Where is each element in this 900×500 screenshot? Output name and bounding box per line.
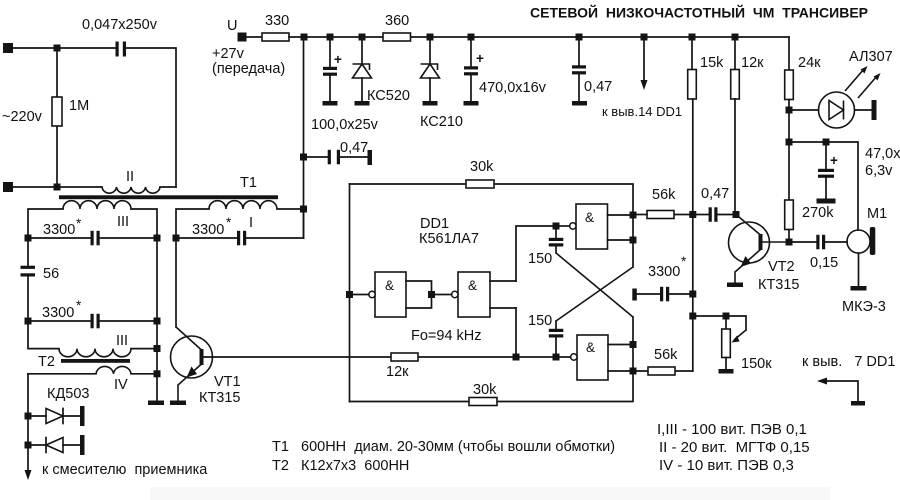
svg-text:МКЭ-3: МКЭ-3 xyxy=(842,299,886,315)
resistor 24к xyxy=(785,55,821,100)
resistor R 1M xyxy=(52,51,89,187)
node gate1 input tie xyxy=(428,291,435,298)
op gate DD1.3 upper right xyxy=(556,204,633,267)
node gate4 in2 xyxy=(630,368,637,375)
svg-text:~220v: ~220v xyxy=(2,109,43,125)
svg-text:КС210: КС210 xyxy=(420,114,463,130)
svg-text:к смесителю приемника: к смесителю приемника xyxy=(42,462,208,478)
wire bottom mains xyxy=(13,186,102,188)
wire right tank column xyxy=(156,238,158,401)
svg-text:0,15: 0,15 xyxy=(810,255,838,271)
op gate DD1.4 lower right xyxy=(516,317,633,380)
wire VT1 collector up xyxy=(175,238,177,327)
svg-text:56k: 56k xyxy=(654,347,678,363)
svg-text:U: U xyxy=(227,18,237,34)
svg-text:12к: 12к xyxy=(741,55,764,71)
node J1 xyxy=(54,45,61,52)
diode VD2 КД503 xyxy=(28,438,80,453)
svg-text:КТ315: КТ315 xyxy=(199,390,241,406)
ground bar right tank column xyxy=(148,401,164,406)
capacitor 150 lower xyxy=(528,313,563,357)
terminal X2 (~220v bottom) xyxy=(3,182,13,192)
capacitor 0,47 tap xyxy=(304,140,369,164)
resistor 360 xyxy=(383,13,411,41)
capacitor 0,15 xyxy=(789,235,847,271)
wire x693 column xyxy=(692,215,694,372)
svg-text:СЕТЕВОЙ НИЗКОЧАСТОТНЫЙ ЧМ Т: СЕТЕВОЙ НИЗКОЧАСТОТНЫЙ ЧМ ТРАНСИВЕР xyxy=(530,4,868,21)
wire gate2 in2 down xyxy=(515,308,517,357)
potentiometer 150к xyxy=(693,313,772,373)
svg-text:30k: 30k xyxy=(473,382,497,398)
node tank2 top right xyxy=(300,206,307,213)
node diode row2 xyxy=(25,442,32,449)
svg-text:270k: 270k xyxy=(802,205,834,221)
wire rail main xyxy=(304,36,789,38)
node left tank row2 left xyxy=(25,318,32,325)
node 47,0 row left xyxy=(786,139,793,146)
ground bar tap7 xyxy=(851,401,865,406)
terminal bar diode row1 xyxy=(80,406,85,426)
zener VD КС520 xyxy=(353,41,410,104)
svg-text:M1: M1 xyxy=(867,206,887,222)
terminal U xyxy=(238,33,247,42)
svg-text:12к: 12к xyxy=(386,364,409,380)
tap к выв. 7 DD1 xyxy=(802,354,895,401)
winding I of T1 xyxy=(176,201,304,238)
op gate DD1.1 xyxy=(353,272,432,317)
ground bar КС210 xyxy=(423,101,438,106)
svg-text:360: 360 xyxy=(385,13,409,29)
svg-text:к выв.14 DD1: к выв.14 DD1 xyxy=(602,104,682,119)
wire top mains xyxy=(13,47,116,49)
svg-text:КД503: КД503 xyxy=(47,386,89,402)
node 150k tap xyxy=(689,313,696,320)
svg-text:&: & xyxy=(385,278,394,293)
node 3300 right xyxy=(689,291,696,298)
node gate4 output junction xyxy=(553,354,560,361)
wire rail corner to 24k xyxy=(788,37,790,70)
terminal bar LED xyxy=(872,100,877,120)
node feed 0,47 tap xyxy=(300,154,307,161)
ground bar 0,47 rail xyxy=(572,101,587,106)
resistor 56k upper xyxy=(637,187,690,219)
node tank2 left xyxy=(173,235,180,242)
ground bar VT1 emitter xyxy=(170,401,186,406)
capacitor 0,047x250v xyxy=(82,17,158,57)
svg-text:+27v: +27v xyxy=(212,46,245,62)
node VT2 base xyxy=(786,239,793,246)
svg-text:0,47: 0,47 xyxy=(340,140,368,156)
svg-text:&: & xyxy=(586,340,595,355)
svg-text:*: * xyxy=(681,254,687,269)
svg-text:3300: 3300 xyxy=(648,264,680,280)
wire 24k down xyxy=(788,100,790,201)
svg-text:470,0x16v: 470,0x16v xyxy=(479,80,547,96)
svg-text:T2 К12х7х3 600НН: T2 К12х7х3 600НН xyxy=(272,458,409,474)
capacitor 0,47 tx xyxy=(697,186,733,222)
transformer T2 core xyxy=(38,354,130,370)
svg-text:3300: 3300 xyxy=(192,222,224,238)
ground bar 470,0 xyxy=(464,101,479,106)
svg-text:VT1: VT1 xyxy=(214,374,241,390)
svg-text:DD1: DD1 xyxy=(420,216,449,232)
svg-text:К561ЛА7: К561ЛА7 xyxy=(419,231,479,247)
node rail 12k xyxy=(732,34,739,41)
svg-text:T2: T2 xyxy=(38,354,55,370)
svg-text:100,0x25v: 100,0x25v xyxy=(311,117,379,133)
capacitor 3300* tx xyxy=(632,254,689,301)
node gate4 feedback tie xyxy=(513,354,520,361)
arrow to pin 14 DD1 xyxy=(602,41,682,119)
node rail КС520 xyxy=(359,34,366,41)
node T2 secondary right xyxy=(154,370,161,377)
node rail x304 xyxy=(301,34,308,41)
svg-text:*: * xyxy=(76,216,82,231)
ground bar VT2 emitter xyxy=(727,283,743,288)
svg-text:II - 20 вит. МГТФ 0,15: II - 20 вит. МГТФ 0,15 xyxy=(659,439,810,456)
svg-text:15k: 15k xyxy=(700,55,724,71)
svg-text:56k: 56k xyxy=(652,187,676,203)
svg-text:150к: 150к xyxy=(741,356,772,372)
svg-text:(передача): (передача) xyxy=(212,61,285,77)
svg-text:II: II xyxy=(126,169,134,185)
ground bar 100,0 xyxy=(323,101,338,106)
wire left tank column to T2 xyxy=(28,321,59,349)
winding II of T1 xyxy=(102,169,176,193)
node gate4 in1 xyxy=(630,341,637,348)
capacitor 3300* tank2 xyxy=(176,209,304,245)
svg-text:0,047x250v: 0,047x250v xyxy=(82,17,158,33)
resistor 12к base VT1 xyxy=(204,353,517,380)
svg-text:30k: 30k xyxy=(470,159,494,175)
wire 30k bottom loop xyxy=(350,371,634,402)
wire cross diagonal 2 xyxy=(556,267,633,321)
resistor 56k lower xyxy=(637,347,693,375)
svg-text:к выв. 7 DD1: к выв. 7 DD1 xyxy=(802,354,895,370)
svg-text:0,47: 0,47 xyxy=(701,186,729,202)
svg-text:3300: 3300 xyxy=(43,222,75,238)
svg-text:+: + xyxy=(830,153,838,168)
resistor 15k xyxy=(688,41,724,99)
svg-text:*: * xyxy=(76,298,82,313)
node x693 upper xyxy=(689,211,696,218)
resistor 270k xyxy=(785,200,834,230)
node 47,0 cap top xyxy=(823,139,830,146)
op gate DD1.2 xyxy=(435,272,516,317)
node gate1 output xyxy=(346,291,353,298)
svg-text:56: 56 xyxy=(43,266,59,282)
svg-text:VT2: VT2 xyxy=(768,259,795,275)
resistor 12к xyxy=(731,41,764,99)
capacitor 56 xyxy=(21,238,60,321)
ground bar M1 xyxy=(851,286,867,291)
terminal bar 0,47 tap xyxy=(368,150,373,165)
svg-text:1M: 1M xyxy=(69,98,89,114)
ground bar 150k xyxy=(719,369,734,374)
node left tank row1 left xyxy=(25,235,32,242)
ground bar 47,0 xyxy=(817,199,836,204)
wire 12k down xyxy=(734,99,736,215)
svg-text:T1 600НН диам. 20-30мм (что: T1 600НН диам. 20-30мм (чтобы вошли обмо… xyxy=(272,439,615,455)
diode VD1 КД503 xyxy=(28,409,80,424)
wire feed column x303.5 xyxy=(303,37,305,238)
svg-text:24к: 24к xyxy=(798,55,821,71)
svg-text:IV - 10 вит. ПЭВ 0,3: IV - 10 вит. ПЭВ 0,3 xyxy=(659,457,794,474)
arrow to mixer xyxy=(25,462,209,480)
wire 15k down xyxy=(692,99,694,215)
microphone M1 МКЭ-3 xyxy=(842,206,887,315)
node gate3 in1 xyxy=(630,212,637,219)
svg-text:&: & xyxy=(468,278,477,293)
node rail 0,47 xyxy=(576,34,583,41)
svg-text:III: III xyxy=(116,333,128,349)
svg-text:47,0x: 47,0x xyxy=(865,146,900,162)
svg-text:&: & xyxy=(585,210,594,225)
capacitor 0,47 rail xyxy=(572,41,612,101)
transistor VT1 КТ315 xyxy=(171,327,241,406)
wire filtered node row xyxy=(789,142,858,230)
svg-text:*: * xyxy=(226,215,232,230)
capacitor 470,0x16v xyxy=(464,41,547,101)
capacitor 47,0x 6,3v xyxy=(818,142,900,199)
terminal X1 (~220v top) xyxy=(3,43,13,53)
wire U to R330 xyxy=(246,36,262,38)
svg-text:150: 150 xyxy=(528,251,552,267)
node rail pin14 xyxy=(641,34,648,41)
svg-text:III: III xyxy=(117,214,129,230)
svg-text:330: 330 xyxy=(265,13,289,29)
node rail 100,0 xyxy=(327,34,334,41)
resistor 30k top xyxy=(466,159,494,188)
winding III of T2 xyxy=(59,333,157,357)
svg-text:КТ315: КТ315 xyxy=(758,277,800,293)
node LED tap xyxy=(786,107,793,114)
wire 30k top loop xyxy=(350,184,634,215)
svg-text:I: I xyxy=(249,215,253,231)
wire gate2 in1 up xyxy=(516,226,556,281)
svg-text:3300: 3300 xyxy=(42,305,74,321)
svg-text:0,47: 0,47 xyxy=(584,79,612,95)
wire cap to corner xyxy=(126,48,176,187)
svg-text:+: + xyxy=(476,51,484,66)
zener VD КС210 xyxy=(420,41,463,130)
svg-text:IV: IV xyxy=(114,377,128,393)
capacitor 3300* upper left tank xyxy=(28,216,157,245)
svg-text:I,III - 100 вит. ПЭВ 0,1: I,III - 100 вит. ПЭВ 0,1 xyxy=(657,421,807,438)
wire DD1 left column xyxy=(349,184,351,402)
node left tank row2 right xyxy=(154,318,161,325)
capacitor 150 upper xyxy=(528,226,563,267)
resistor 330 xyxy=(262,13,289,41)
node gate3 in2 xyxy=(630,237,637,244)
capacitor 100,0x25v xyxy=(311,37,379,133)
node VT2 collector xyxy=(733,211,740,218)
transformer T1 core xyxy=(59,175,278,199)
svg-text:T1: T1 xyxy=(240,175,257,191)
ground bar КС520 xyxy=(355,101,370,106)
capacitor 3300* lower left tank xyxy=(28,298,157,328)
svg-text:Fo=94 kHz: Fo=94 kHz xyxy=(411,328,482,344)
svg-text:КС520: КС520 xyxy=(367,88,410,104)
svg-text:150: 150 xyxy=(528,313,552,329)
wire R330 to rail xyxy=(289,36,304,38)
wire 270k to base node xyxy=(788,230,790,243)
wire winding IV down xyxy=(27,374,29,476)
svg-text:АЛ307: АЛ307 xyxy=(849,49,893,65)
svg-text:+: + xyxy=(334,52,342,67)
node T2 primary right xyxy=(154,345,161,352)
winding III of T1 xyxy=(28,201,157,238)
node diode row1 xyxy=(25,413,32,420)
winding IV of T2 xyxy=(28,366,157,393)
terminal bar diode row2 xyxy=(80,435,85,455)
resistor 30k bottom xyxy=(469,382,497,406)
node rail КС210 xyxy=(427,34,434,41)
wire cross diagonal 1 xyxy=(556,253,633,317)
node rail 15k xyxy=(689,34,696,41)
transistor VT2 КТ315 xyxy=(729,215,800,294)
svg-text:6,3v: 6,3v xyxy=(865,163,893,179)
LED АЛ307 xyxy=(789,49,893,128)
node left tank row1 right xyxy=(154,235,161,242)
node J2 xyxy=(54,184,61,191)
node rail 470,0 xyxy=(468,34,475,41)
node gate3 output junction xyxy=(553,223,560,230)
